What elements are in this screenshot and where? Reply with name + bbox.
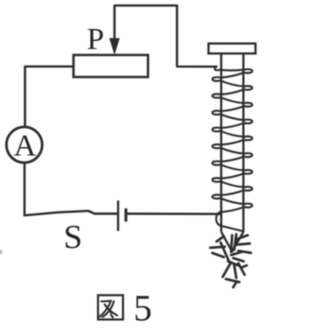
battery: short negative plate (124, 208, 127, 221)
scan speck (0, 250, 2, 254)
svg-text:A: A (14, 128, 37, 163)
wire: ammeter to bottom-left corner (23, 163, 25, 216)
wire: bottom run with switch S kink (25, 211, 118, 216)
rheostat R (resistor box) (74, 55, 149, 77)
svg-text:S: S (64, 219, 83, 256)
svg-text:P: P (87, 21, 104, 56)
wire: battery to coil bottom (127, 213, 220, 216)
battery: long positive plate (117, 201, 119, 231)
screw head (209, 44, 256, 54)
pins attracted to screw tip (210, 234, 251, 287)
coil L wound on screw (212, 67, 252, 232)
slider arrow P head (110, 39, 119, 54)
caption: 图 (drawn glyph) (98, 295, 123, 319)
screw shank (221, 54, 243, 232)
screw taper tip (221, 232, 243, 252)
ammeter A (6, 127, 42, 163)
svg-text:5: 5 (133, 289, 152, 329)
wire: rheostat left lead to ammeter (25, 67, 74, 128)
wire: slider arm top loop (115, 6, 217, 67)
